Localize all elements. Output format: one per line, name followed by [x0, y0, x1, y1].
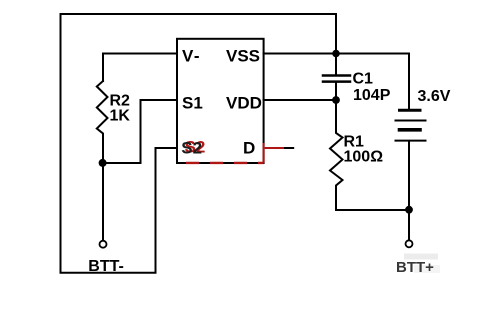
svg-text:1K: 1K	[110, 108, 131, 125]
svg-text:BTT-: BTT-	[88, 258, 124, 275]
svg-text:VSS: VSS	[226, 47, 260, 66]
svg-text:D: D	[243, 138, 255, 157]
svg-text:100Ω: 100Ω	[344, 149, 384, 166]
svg-text:V-: V-	[182, 47, 200, 66]
svg-text:S1: S1	[182, 93, 203, 112]
svg-text:S2: S2	[181, 138, 202, 157]
svg-text:VDD: VDD	[226, 93, 262, 112]
svg-text:3.6V: 3.6V	[418, 88, 451, 105]
svg-text:BTT+: BTT+	[396, 259, 434, 276]
svg-text:104P: 104P	[353, 87, 391, 104]
svg-text:C1: C1	[353, 71, 374, 88]
